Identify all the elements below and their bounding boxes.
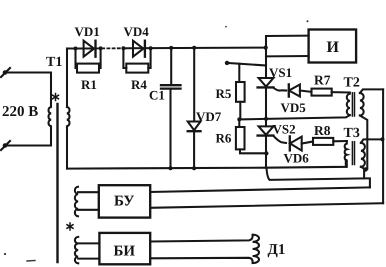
transformer T1 secondary winding bbox=[67, 107, 69, 126]
svg-text:И: И bbox=[327, 39, 340, 56]
wire: БИ top line to Д1 bbox=[150, 235, 252, 242]
wire: БУ top line bbox=[150, 187, 370, 192]
svg-text:R8: R8 bbox=[314, 123, 331, 138]
node: bus-VD7 bbox=[192, 46, 196, 50]
wire: VS1 cathode to VS2 anode bbox=[265, 88, 267, 127]
node: R5 top link left end bbox=[225, 61, 229, 65]
wire: T2 left bottom to VS1 cathode row bbox=[239, 115, 349, 119]
diode VD1 bbox=[84, 41, 96, 57]
svg-text:R5: R5 bbox=[216, 86, 232, 101]
svg-text:R1: R1 bbox=[81, 77, 97, 92]
resistor R4 bbox=[123, 48, 150, 72]
wire: T2-T3 primary return line to VS2 cathode node bbox=[267, 170, 365, 180]
box БИ bbox=[99, 233, 150, 264]
node: T3 right top joins vertical bbox=[380, 137, 384, 141]
thyristor VS2 bbox=[258, 126, 286, 167]
winding Д1 bbox=[253, 235, 259, 263]
wire: БИ bottom line to Д1 bbox=[150, 258, 252, 263]
transformer T3 right winding bbox=[361, 143, 365, 167]
resistor R7 bbox=[312, 89, 350, 96]
wire: T1 secondary top riser to top bus bbox=[66, 49, 68, 108]
wire: junction jog down to БУ top line bbox=[364, 170, 370, 188]
wire: top bus VD4 to right junction bbox=[124, 47, 266, 50]
svg-text:Т1: Т1 bbox=[46, 55, 62, 70]
diode VD4 bbox=[133, 41, 145, 57]
transformer T3 core bbox=[352, 142, 354, 165]
diode VD6 bbox=[290, 136, 313, 150]
wire: T3 right bottom to junction bbox=[361, 167, 365, 170]
node: C1-bottom bus bbox=[169, 166, 173, 170]
wire: И bottom link bbox=[266, 55, 309, 57]
transformer T1 primary winding bbox=[49, 73, 51, 146]
node: R5-R6 row bbox=[237, 117, 241, 121]
transformer T2 core bbox=[352, 93, 354, 116]
capacitor C1 bbox=[161, 48, 181, 168]
svg-text:Т2: Т2 bbox=[344, 75, 360, 90]
svg-text:R4: R4 bbox=[131, 77, 147, 92]
box И bbox=[309, 30, 357, 63]
wire: T2 right bottom down bbox=[360, 116, 367, 169]
polarity mark БИ winding bbox=[67, 223, 73, 230]
node: bus-R1 left bbox=[74, 47, 78, 51]
svg-text:VD5: VD5 bbox=[281, 100, 307, 115]
svg-text:R6: R6 bbox=[216, 131, 232, 146]
node: bus-R4 left bbox=[121, 46, 125, 50]
scan speck mid-top bbox=[225, 26, 227, 28]
terminal bottom-left bbox=[1, 141, 10, 150]
node: bus-VS line junction bbox=[264, 46, 268, 50]
node: bus-C1 bbox=[169, 46, 173, 50]
scan speck bottom-left dot bbox=[4, 253, 6, 255]
transformer T3 left winding bbox=[345, 141, 347, 167]
scan speck top-right bbox=[307, 20, 309, 22]
winding БИ input bbox=[75, 237, 100, 263]
wire: БУ bottom line bbox=[150, 203, 383, 208]
svg-text:R7: R7 bbox=[314, 73, 331, 88]
node: T2-T3 right bottom junction bbox=[363, 167, 367, 171]
node: row-VS line bbox=[264, 117, 268, 121]
wire: T3 right top to right vertical bbox=[361, 139, 383, 142]
wire: И top link bbox=[266, 35, 309, 37]
diode VD5 bbox=[289, 84, 312, 96]
wire: R5 top link to VS1 anode line bbox=[227, 63, 266, 66]
svg-text:БИ: БИ bbox=[114, 244, 136, 260]
svg-text:VS2: VS2 bbox=[273, 122, 296, 137]
diode VD7 bbox=[188, 48, 201, 168]
wire: T1 secondary bottom riser to bottom bus bbox=[66, 127, 68, 169]
svg-text:VD4: VD4 bbox=[124, 24, 150, 39]
wire: bottom bus bbox=[67, 160, 346, 168]
wire: bottom terminal to T1 primary bbox=[7, 144, 51, 146]
scan speck bottom-left dash bbox=[27, 260, 35, 263]
resistor R5 bbox=[236, 64, 245, 120]
svg-text:VD1: VD1 bbox=[75, 24, 100, 39]
resistor R6 bbox=[236, 119, 267, 153]
svg-text:Д1: Д1 bbox=[268, 242, 286, 258]
winding БУ input bbox=[75, 187, 99, 217]
transformer T2 right winding bbox=[360, 93, 364, 116]
box БУ bbox=[99, 185, 150, 217]
node: VD7-bottom bus bbox=[192, 166, 196, 170]
wire: dashed bus VD1 to VD4 bbox=[97, 47, 124, 49]
svg-text:C1: C1 bbox=[149, 88, 165, 103]
transformer T2 left winding bbox=[347, 93, 350, 116]
wire: top terminal to T1 primary bbox=[7, 71, 51, 73]
node: R6 bottom to VS2 cathode bbox=[264, 151, 268, 155]
polarity mark T1 bbox=[53, 94, 59, 101]
svg-text:220 В: 220 В bbox=[2, 104, 38, 120]
svg-text:VD7: VD7 bbox=[196, 109, 222, 124]
resistor R8 bbox=[313, 138, 347, 145]
terminal top-left bbox=[1, 68, 10, 77]
thyristor VS1 bbox=[258, 78, 286, 91]
svg-text:БУ: БУ bbox=[114, 194, 134, 210]
transformer T1 core bbox=[56, 104, 58, 262]
node: bus-R4 right bbox=[149, 46, 153, 50]
wire: vertical link bus to VS1 anode and И taps bbox=[265, 36, 267, 78]
resistor R1 bbox=[76, 48, 101, 72]
wire: right vertical (T2 top to БУ bottom line) bbox=[382, 89, 384, 203]
svg-text:VD6: VD6 bbox=[284, 151, 310, 166]
svg-text:Т3: Т3 bbox=[344, 126, 360, 141]
node: bus-R1 right bbox=[99, 46, 103, 50]
wire: T2 right top to right vertical bbox=[360, 89, 383, 93]
wire: top bus left section bbox=[67, 47, 96, 49]
